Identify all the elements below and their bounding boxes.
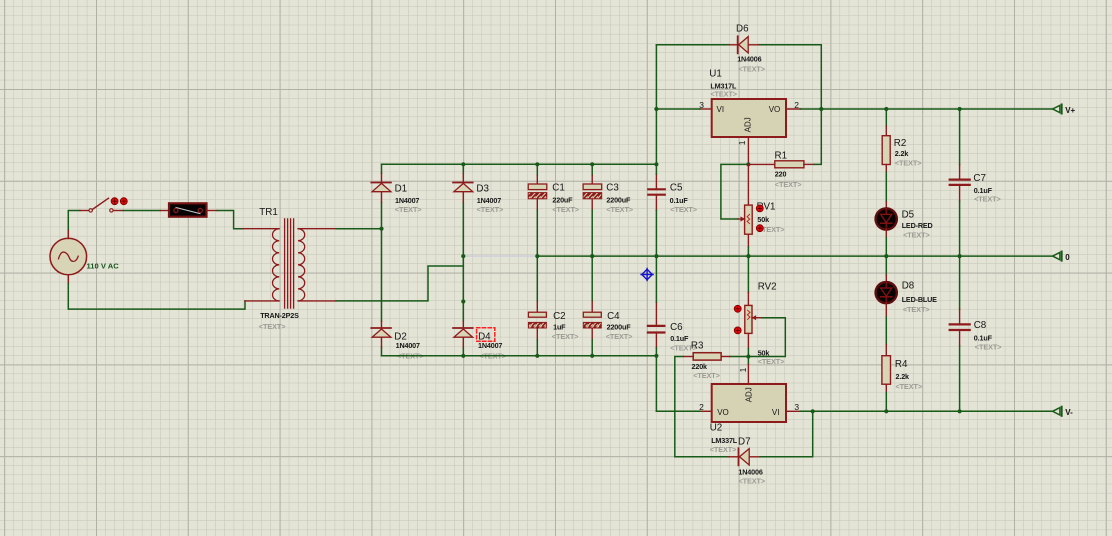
V- rail junctions	[811, 409, 815, 413]
U1 pin 2 (VO)	[786, 108, 801, 110]
svg-text:0.1uF: 0.1uF	[974, 186, 993, 195]
secondary top pin	[299, 228, 336, 230]
wire fuse to transformer primary top	[217, 211, 243, 229]
svg-text:C3: C3	[606, 183, 619, 194]
svg-text:<TEXT>: <TEXT>	[975, 343, 1002, 352]
resistor R2 2.2k	[882, 109, 890, 202]
svg-text:0.1uF: 0.1uF	[974, 333, 993, 342]
capacitor C6 0.1uF	[648, 302, 665, 348]
wire D7 anode to V- rail	[760, 411, 813, 457]
svg-text:R4: R4	[895, 359, 908, 370]
wire U1 VI to C5 column	[656, 108, 700, 110]
primary bottom pin	[245, 300, 279, 302]
resistor R3 220k	[683, 353, 748, 360]
secondary winding	[298, 229, 305, 301]
wire U2 VO to C6 column	[656, 410, 700, 412]
capacitor C3 2200uF	[583, 164, 602, 256]
svg-text:<TEXT>: <TEXT>	[775, 180, 802, 189]
capacitor C7 0.1uF	[950, 109, 970, 256]
U1 pin 1 (ADJ)	[747, 137, 749, 164]
switch SW1	[80, 198, 123, 212]
switch actuator red dots	[111, 198, 127, 205]
svg-text:220uF: 220uF	[552, 196, 573, 205]
wire V+ rail	[801, 108, 1053, 110]
wire switch to fuse	[123, 210, 160, 212]
capacitor C5 0.1uF	[648, 174, 665, 210]
junction node A	[379, 227, 383, 231]
diode D3 1N4007	[453, 173, 473, 202]
svg-text:D6: D6	[736, 24, 749, 35]
svg-text:RV2: RV2	[758, 281, 777, 292]
svg-text:<TEXT>: <TEXT>	[895, 159, 922, 168]
primary winding	[273, 229, 280, 301]
svg-text:1uF: 1uF	[553, 322, 566, 331]
faint wire segment 0-net	[463, 255, 537, 257]
svg-text:VI: VI	[717, 105, 725, 114]
wire R1 right to VO rail	[814, 109, 821, 164]
svg-text:LED-RED: LED-RED	[902, 221, 933, 230]
diode D1 1N4007	[371, 173, 391, 202]
wire ADJ loop to RV1 wiper	[721, 164, 749, 219]
AC source V1 110 V AC	[50, 229, 87, 283]
svg-text:<TEXT>: <TEXT>	[552, 205, 579, 214]
svg-text:1N4006: 1N4006	[738, 468, 762, 477]
svg-text:D3: D3	[476, 184, 489, 195]
wire D1/D2 column	[381, 164, 383, 355]
svg-text:D7: D7	[738, 437, 751, 448]
svg-text:<TEXT>: <TEXT>	[903, 305, 930, 314]
potentiometer RV2 50k	[745, 256, 762, 356]
svg-text:2.2k: 2.2k	[896, 372, 910, 381]
svg-text:D5: D5	[902, 209, 915, 220]
svg-text:<TEXT>: <TEXT>	[738, 65, 765, 74]
svg-text:<TEXT>: <TEXT>	[552, 332, 579, 341]
top rail wire (bridge +)	[382, 163, 657, 165]
junction ADJ node	[746, 162, 750, 166]
svg-text:U1: U1	[709, 68, 722, 79]
svg-text:1: 1	[737, 140, 747, 145]
RV1 actuator red dots	[756, 205, 763, 232]
terminal 0	[1053, 252, 1062, 261]
svg-text:<TEXT>: <TEXT>	[606, 332, 633, 341]
svg-text:C5: C5	[670, 182, 683, 193]
wire RV2 wiper loop	[748, 318, 785, 357]
svg-text:<TEXT>: <TEXT>	[974, 195, 1001, 204]
svg-text:VO: VO	[769, 105, 781, 114]
svg-text:1N4007: 1N4007	[396, 341, 420, 350]
svg-text:<TEXT>: <TEXT>	[395, 205, 422, 214]
terminal V+	[1053, 104, 1062, 113]
svg-text:1: 1	[738, 367, 748, 372]
svg-text:R1: R1	[775, 150, 788, 161]
svg-text:<TEXT>: <TEXT>	[606, 205, 633, 214]
junctions bottom rail	[461, 354, 465, 358]
junctions top rail	[461, 162, 465, 166]
svg-text:V+: V+	[1065, 106, 1075, 115]
resistor R1 220	[748, 161, 814, 168]
wire secondary top to bridge node A	[336, 228, 382, 230]
U2 pin 2 (VO)	[700, 410, 712, 412]
diode D7 1N4006	[729, 448, 760, 465]
potentiometer RV1 50k	[738, 164, 752, 256]
svg-text:R2: R2	[894, 138, 907, 149]
primary top pin	[243, 228, 279, 230]
C5/C6 main vertical wire	[655, 45, 657, 412]
RV2 actuator red dots	[734, 305, 741, 333]
svg-text:C7: C7	[973, 173, 986, 184]
wire secondary bottom to bridge node B (step)	[336, 266, 463, 301]
D4 selection box	[477, 328, 495, 341]
svg-text:TR1: TR1	[259, 207, 278, 218]
svg-text:3: 3	[794, 402, 799, 412]
regulator U2 LM337L	[712, 384, 786, 422]
svg-text:D1: D1	[395, 184, 408, 195]
mid rail wire (0 net)	[537, 255, 1052, 257]
svg-text:50k: 50k	[757, 215, 769, 224]
svg-text:<TEXT>: <TEXT>	[903, 230, 930, 239]
svg-text:C4: C4	[607, 311, 620, 322]
svg-text:U2: U2	[710, 423, 723, 434]
svg-text:LED-BLUE: LED-BLUE	[902, 295, 937, 304]
fuse FU1	[160, 203, 217, 216]
op-amp regulator U1 LM317L	[712, 99, 786, 137]
wire R3 left to D7 row	[675, 357, 729, 457]
svg-text:2.2k: 2.2k	[895, 149, 909, 158]
capacitor C4 2200uF	[583, 256, 601, 356]
svg-text:ADJ: ADJ	[744, 387, 753, 402]
svg-text:220k: 220k	[692, 362, 708, 371]
core	[285, 219, 294, 308]
svg-text:1N4007: 1N4007	[478, 341, 502, 350]
svg-text:C6: C6	[670, 322, 683, 333]
capacitor C8 0.1uF	[950, 256, 970, 411]
move cursor marker	[641, 269, 653, 281]
bottom rail wire (bridge -)	[382, 355, 657, 357]
U2 pin 3 (VI)	[786, 410, 801, 412]
svg-text:C2: C2	[553, 311, 566, 322]
secondary bottom pin	[299, 300, 336, 302]
junction U1 VI node	[654, 107, 658, 111]
svg-text:<TEXT>: <TEXT>	[710, 445, 737, 454]
junction node B	[461, 254, 465, 258]
junction ADJ2 node	[746, 354, 750, 358]
resistor R4 2.2k	[882, 345, 891, 412]
svg-text:C8: C8	[974, 320, 987, 331]
diode D2 1N4007	[371, 321, 391, 347]
svg-text:ADJ: ADJ	[744, 117, 753, 132]
svg-text:<TEXT>: <TEXT>	[670, 205, 697, 214]
transformer TR1	[243, 219, 336, 308]
svg-text:<TEXT>: <TEXT>	[710, 90, 737, 99]
U2 pin 1 (ADJ)	[747, 357, 749, 365]
svg-text:0.1uF: 0.1uF	[670, 334, 689, 343]
capacitor C2 1uF	[528, 256, 546, 356]
U1 pin 3 (VI)	[700, 108, 712, 110]
diode D4 1N4007	[453, 321, 473, 347]
svg-text:C1: C1	[552, 183, 565, 194]
svg-text:220: 220	[775, 169, 787, 178]
svg-text:0: 0	[1065, 253, 1070, 262]
svg-text:<TEXT>: <TEXT>	[477, 205, 504, 214]
svg-text:<TEXT>: <TEXT>	[739, 476, 766, 485]
junction on D3 column	[461, 299, 465, 303]
svg-text:VI: VI	[772, 408, 780, 417]
LED D8 LED-BLUE	[876, 256, 897, 344]
svg-text:110 V AC: 110 V AC	[87, 262, 120, 271]
mid rail junctions	[535, 254, 539, 258]
capacitor C1 220uF	[528, 164, 547, 256]
wire D6 row	[656, 45, 821, 109]
svg-text:1N4006: 1N4006	[737, 54, 761, 63]
svg-text:<TEXT>: <TEXT>	[693, 371, 720, 380]
wire AC bottom to transformer primary bottom	[68, 284, 245, 309]
wire D3/D4 column	[462, 164, 464, 355]
V+ rail junctions	[819, 107, 823, 111]
svg-text:0.1uF: 0.1uF	[670, 196, 689, 205]
svg-text:2200uF: 2200uF	[606, 196, 631, 205]
svg-text:V-: V-	[1065, 408, 1073, 417]
terminal V-	[1053, 407, 1062, 416]
svg-text:<TEXT>: <TEXT>	[896, 382, 923, 391]
svg-text:2: 2	[794, 100, 799, 110]
svg-text:LM337L: LM337L	[711, 436, 738, 445]
svg-text:D8: D8	[902, 281, 915, 292]
LED D5 LED-RED	[876, 202, 897, 256]
wire AC top to switch	[68, 211, 80, 230]
wire V- rail	[801, 410, 1053, 412]
svg-text:2200uF: 2200uF	[607, 322, 632, 331]
svg-text:<TEXT>: <TEXT>	[758, 357, 785, 366]
svg-text:TRAN-2P2S: TRAN-2P2S	[260, 311, 299, 320]
svg-text:VO: VO	[717, 408, 729, 417]
diode D6 1N4006	[729, 36, 758, 53]
svg-text:<TEXT>: <TEXT>	[259, 322, 286, 331]
svg-text:R3: R3	[691, 340, 704, 351]
